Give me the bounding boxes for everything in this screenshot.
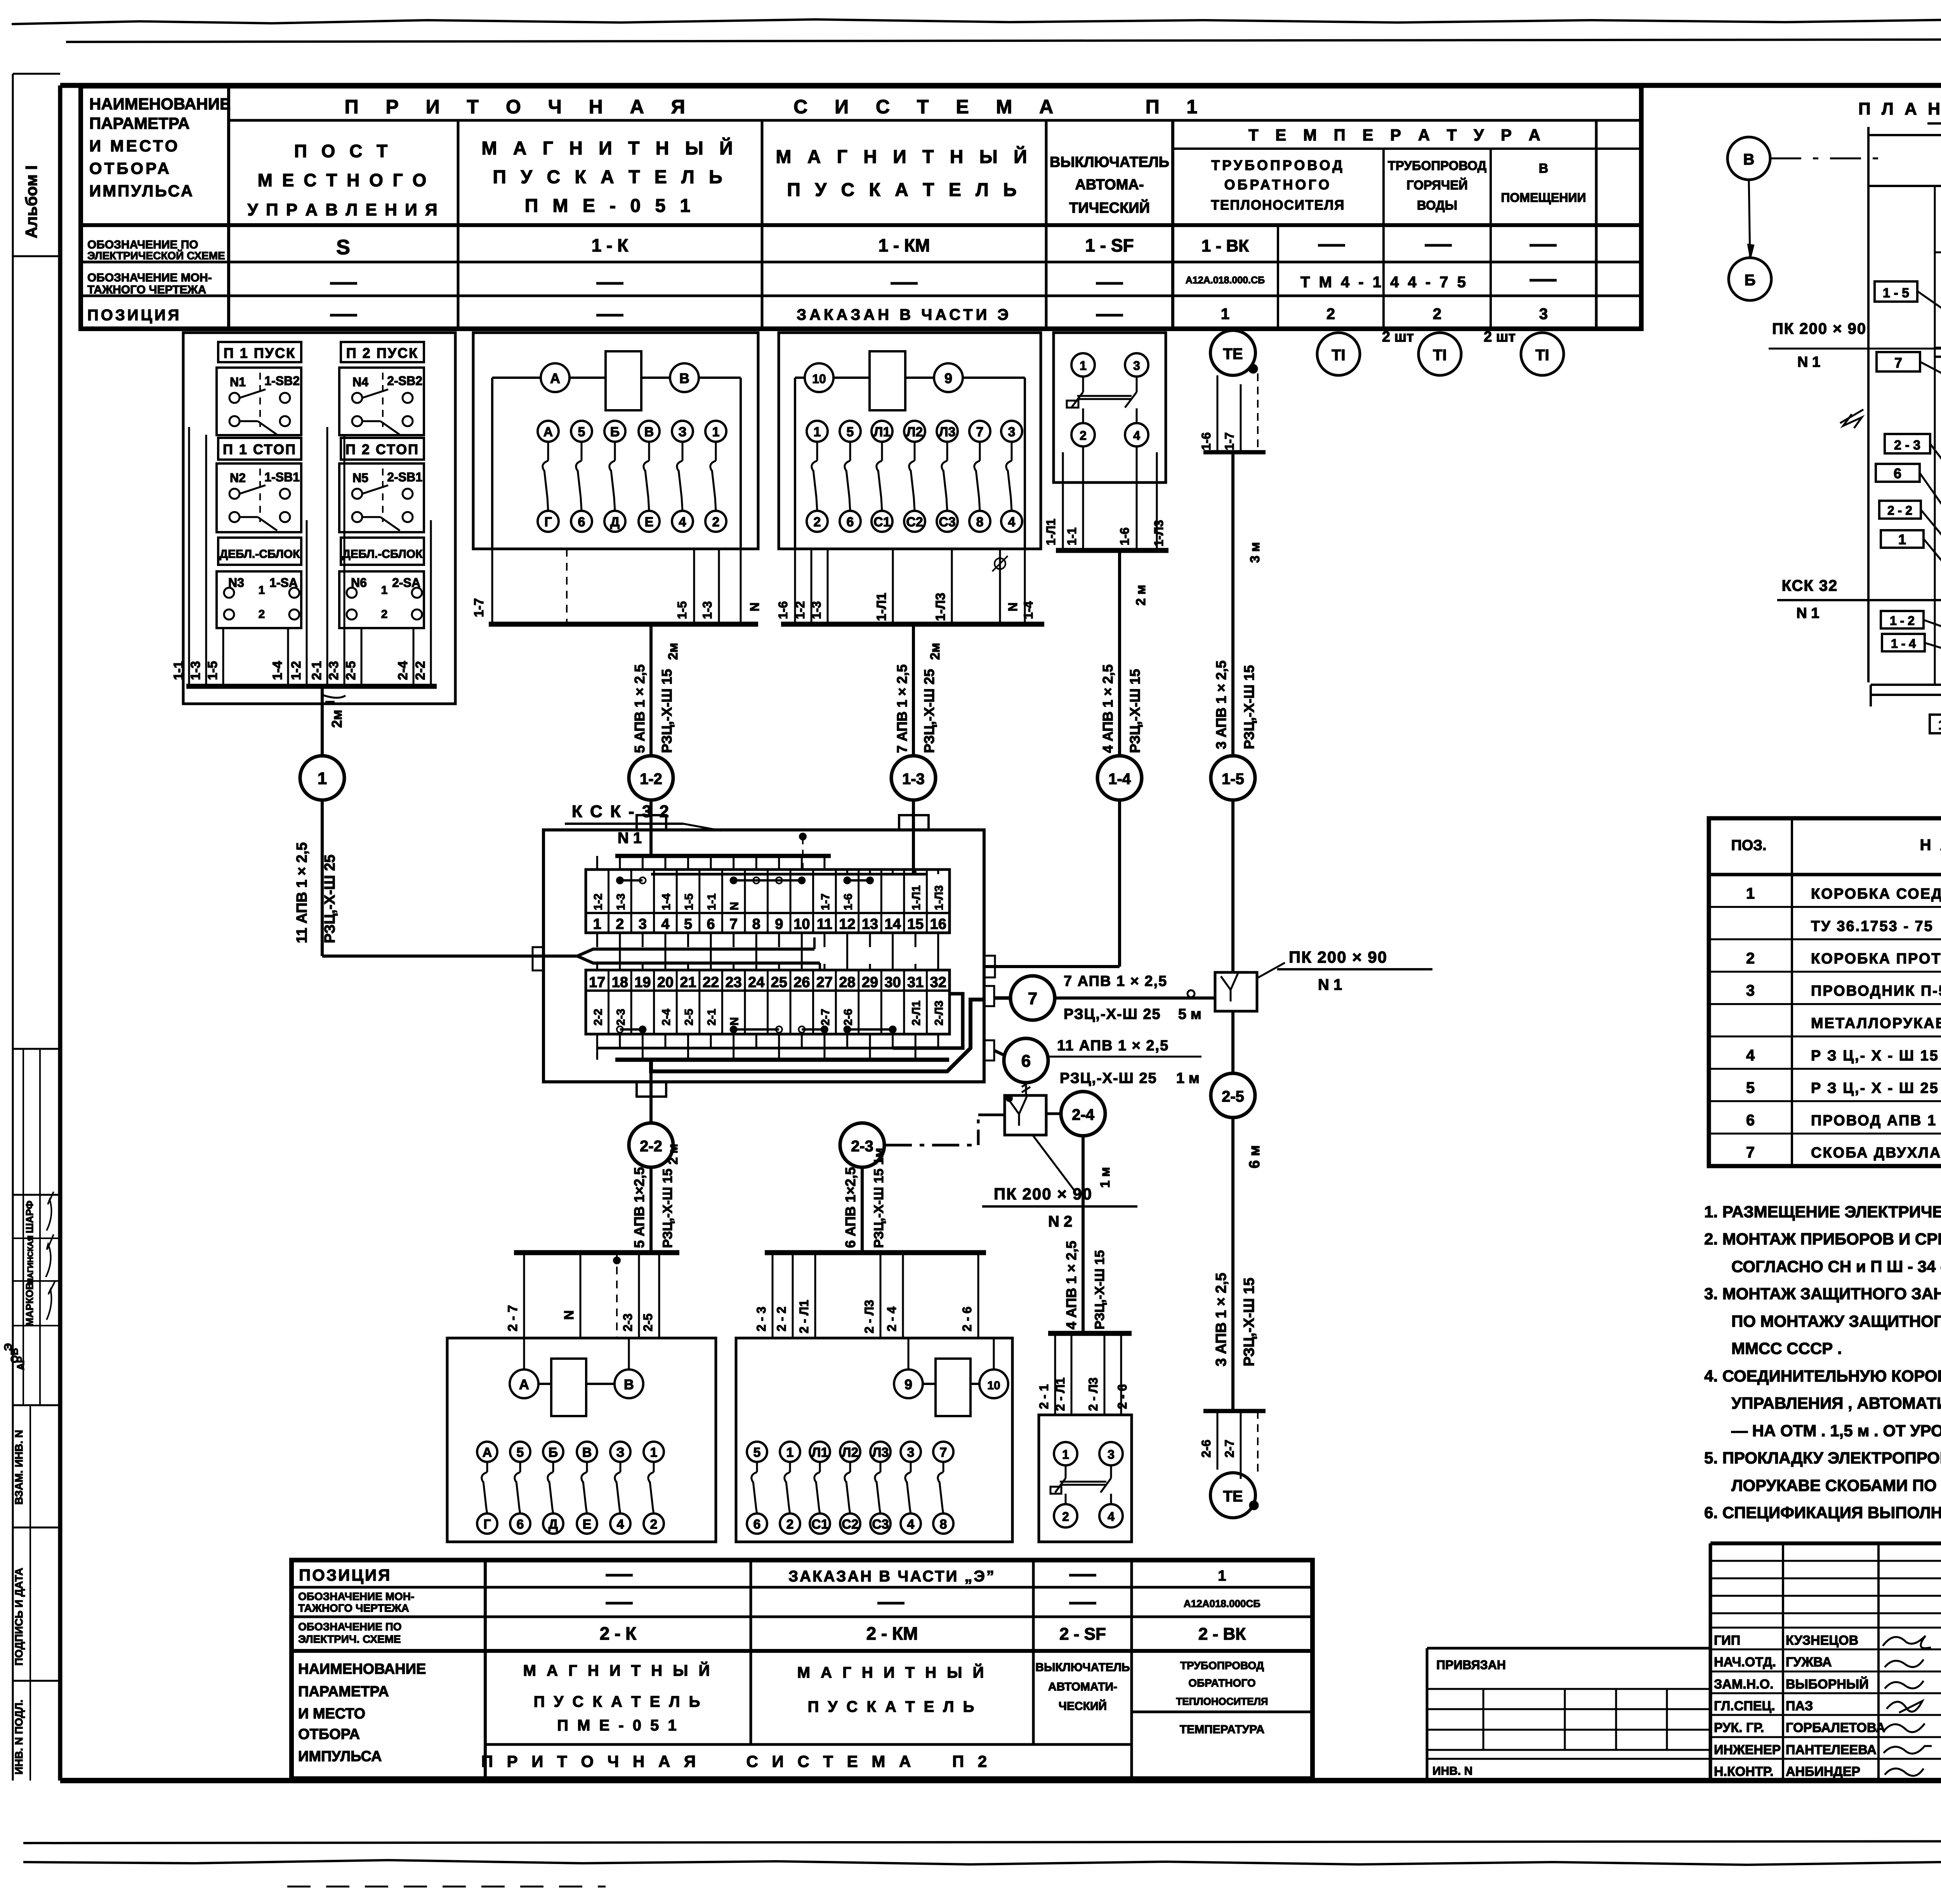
wire 1-L1 [892,549,894,624]
svg-text:6 АПВ 1×2,5: 6 АПВ 1×2,5 [842,1167,858,1248]
wire 2-5 in control post [361,628,363,686]
svg-text:А: А [543,425,553,439]
svg-text:РЗЦ,-Х-Ш 15: РЗЦ,-Х-Ш 15 [1092,1250,1107,1330]
svg-text:2м: 2м [928,643,943,660]
svg-text:П 1 СТОП: П 1 СТОП [223,441,297,457]
svg-text:1: 1 [381,584,388,597]
building top wall band [1868,134,1941,136]
thick loop to circle 7 [893,994,963,1048]
svg-text:2 - Л1: 2 - Л1 [1053,1378,1067,1411]
outer border left [12,74,14,1781]
svg-text:32: 32 [930,974,946,991]
svg-text:2-Л3: 2-Л3 [933,1001,946,1026]
svg-text:1: 1 [786,1445,794,1460]
svg-text:ТРУБОПРОВОД: ТРУБОПРОВОД [1388,158,1486,173]
svg-text:ПРИВЯЗАН: ПРИВЯЗАН [1436,1658,1506,1672]
wire node 1-5 to PK N1 [1231,800,1234,972]
wire 2-7 [523,1253,525,1338]
svg-text:Г: Г [483,1517,491,1532]
svg-text:Б: Б [610,425,620,439]
table P1: poziciya values [330,314,357,317]
wire 1-7 [491,549,493,624]
svg-text:1 м: 1 м [1098,1167,1113,1188]
svg-text:2-3: 2-3 [326,661,341,680]
sidebar signatures squiggles [47,1192,54,1231]
svg-text:2: 2 [1433,305,1441,323]
svg-text:НАИМЕНОВАНИЕ: НАИМЕНОВАНИЕ [298,1661,426,1677]
KCK left notch [533,947,543,970]
KCK collector lines bottom [598,1047,893,1050]
svg-text:23: 23 [726,974,742,991]
svg-text:2-3: 2-3 [621,1314,635,1331]
svg-text:5. ПРОКЛАДКУ ЭЛЕКТРОПРОВОД: 5. ПРОКЛАДКУ ЭЛЕКТРОПРОВОДОК ОСУЩЕСТВИТЬ… [1704,1449,1941,1467]
wire PK N2 to node 2-4 [1046,1113,1061,1115]
svg-text:П У С К А Т Е Л Ь: П У С К А Т Е Л Ь [534,1693,703,1710]
svg-text:31: 31 [907,974,924,991]
svg-text:ЧЕСКИЙ: ЧЕСКИЙ [1059,1699,1107,1713]
svg-text:4. СОЕДИНИТЕЛЬНУЮ КОРОБКУ: 4. СОЕДИНИТЕЛЬНУЮ КОРОБКУ УСТАНОВИТЬ НА … [1704,1367,1941,1385]
drawing frame (thick) [60,83,1941,88]
wire N [580,1253,582,1338]
svg-text:ПК 200 × 90: ПК 200 × 90 [1772,320,1866,337]
jumper 12-13 upper [847,879,870,882]
wire node 1-2 to KCK [649,800,653,856]
svg-text:РЗЦ,-Х-Ш 15: РЗЦ,-Х-Ш 15 [1241,1277,1257,1366]
svg-text:ТРУБОПРОВОД: ТРУБОПРОВОД [1211,157,1345,173]
svg-text:2 - 7: 2 - 7 [505,1305,520,1331]
svg-text:ПК 200 × 90: ПК 200 × 90 [1289,948,1387,966]
svg-text:10: 10 [793,916,810,932]
svg-text:1-7: 1-7 [819,894,832,910]
svg-text:28: 28 [839,974,855,991]
svg-text:СКОБА ДВУХЛАПКОВАЯ СД-22 ТУ: СКОБА ДВУХЛАПКОВАЯ СД-22 ТУ 36. 1086-76 [1811,1145,1941,1161]
svg-text:2 - 3: 2 - 3 [754,1307,768,1331]
svg-text:1-3: 1-3 [188,661,203,680]
svg-text:М А Г Н И Т Н Ы Й: М А Г Н И Т Н Ы Й [481,137,738,159]
svg-text:18: 18 [612,974,628,991]
callout 7 [1877,352,1920,371]
svg-text:14: 14 [884,916,901,932]
svg-text:2 - 2: 2 - 2 [1887,503,1912,517]
svg-text:П 2 ПУСК: П 2 ПУСК [346,345,418,361]
svg-text:Р З Ц,- Х - Ш 15: Р З Ц,- Х - Ш 15 [1811,1048,1939,1064]
svg-text:ПОДПИСЬ И ДАТА: ПОДПИСЬ И ДАТА [13,1568,25,1666]
svg-text:1-4: 1-4 [660,893,673,910]
svg-text:Г: Г [544,515,552,529]
svg-text:4: 4 [679,515,686,529]
svg-text:1: 1 [1062,1448,1069,1461]
svg-text:МАРКОВ: МАРКОВ [24,1283,35,1326]
svg-text:ВЫКЛЮЧАТЕЛЬ: ВЫКЛЮЧАТЕЛЬ [1035,1661,1130,1674]
svg-text:УПРАВЛЕНИЯ , АВТОМАТИЧЕСКИЕ: УПРАВЛЕНИЯ , АВТОМАТИЧЕСКИЕ ВЫКЛЮЧАТЕЛИ … [1731,1394,1941,1412]
svg-text:2-3: 2-3 [615,1009,627,1026]
svg-text:1-2: 1-2 [640,771,662,788]
svg-text:4 АПВ 1 × 2,5: 4 АПВ 1 × 2,5 [1063,1241,1079,1330]
svg-text:ТI: ТI [1535,347,1549,364]
svg-text:ПОЗИЦИЯ: ПОЗИЦИЯ [87,307,181,324]
svg-text:2: 2 [1080,429,1087,443]
wire coil B to top [628,1338,630,1369]
svg-text:N 2: N 2 [1048,1213,1072,1230]
cable 6APV node 2-3 down [861,1167,864,1253]
svg-text:П Л А Н Р А С П О Л О Ж Е Н И: П Л А Н Р А С П О Л О Ж Е Н И Я [1858,99,1941,118]
svg-text:2-6: 2-6 [842,1009,854,1026]
svg-text:1-SB1: 1-SB1 [264,470,300,484]
svg-text:М А Г Н И Т Н Ы Й: М А Г Н И Т Н Ы Й [776,146,1032,167]
svg-text:8: 8 [940,1517,947,1532]
axis V dash line [1770,158,1885,160]
svg-text:В: В [679,370,689,386]
node 1-3 [891,756,936,800]
svg-text:ЭЛЕКТРИЧ. СХЕМЕ: ЭЛЕКТРИЧ. СХЕМЕ [298,1633,401,1645]
torn paper edge top [12,16,1941,116]
svg-text:НАЧ.ОТД.: НАЧ.ОТД. [1714,1655,1776,1670]
svg-text:17: 17 [589,974,605,991]
starter 1-KM bus [781,622,1044,627]
svg-text:2: 2 [786,1517,794,1532]
interior wall horizontal [1935,252,1941,253]
svg-text:И МЕСТО: И МЕСТО [298,1706,365,1722]
svg-text:10: 10 [812,372,826,386]
svg-text:5: 5 [1746,1079,1755,1096]
svg-text:1-2: 1-2 [793,601,807,619]
svg-text:Альбом I: Альбом I [22,165,40,238]
svg-text:4: 4 [617,1517,624,1532]
svg-text:3: 3 [1746,982,1755,999]
local control post box (Пост местного управления) [183,333,455,704]
node 2-3 [840,1123,884,1167]
KCK top cable tabs [637,815,666,830]
svg-text:12: 12 [839,916,855,932]
svg-text:7: 7 [1028,989,1037,1008]
wires 1-SF to bus [1062,452,1064,550]
svg-text:ИМПУЛЬСА: ИМПУЛЬСА [89,182,194,200]
svg-text:РЗЦ,-Х-Ш 15: РЗЦ,-Х-Ш 15 [1127,669,1143,753]
svg-text:11 АПВ 1 × 2,5: 11 АПВ 1 × 2,5 [1057,1038,1169,1054]
callout 1 [1881,530,1924,548]
svg-text:СОГЛАСНО СН и П Ш - 34 - 74: СОГЛАСНО СН и П Ш - 34 - 74 ГОССТРОЯ ССС… [1731,1257,1941,1276]
wire 1-6 [794,549,796,624]
plan bottom wall [1871,684,1941,686]
node 1-5 [1211,756,1255,800]
svg-text:8: 8 [976,515,984,529]
node 1 [300,756,344,800]
svg-text:2-4: 2-4 [396,661,410,680]
wire node 7 to PK200 N1 [1055,996,1215,1000]
interlock label box Дебл.-Сблок [218,538,301,565]
svg-text:2 - SF: 2 - SF [1059,1625,1106,1644]
breaker 2-SF box [1039,1415,1132,1542]
svg-text:ШАРФ: ШАРФ [24,1201,35,1233]
svg-text:2: 2 [1062,1510,1069,1524]
breaker 2-SF bus [1048,1331,1132,1336]
jumper 23-25 lower [734,1028,779,1031]
svg-text:30: 30 [884,974,901,991]
svg-text:1: 1 [712,425,720,439]
terminal strip lower (17-32) [586,970,950,1034]
starter 1-KM coil circuit [805,363,833,392]
wire 1-2 in control post [306,520,308,686]
svg-text:М А Г Н И Т Н Ы Й: М А Г Н И Т Н Ы Й [523,1661,713,1679]
svg-text:2 - 6: 2 - 6 [960,1307,974,1331]
svg-text:2-2: 2-2 [413,661,428,680]
svg-text:П Р И Т О Ч Н А Я С И С Т: П Р И Т О Ч Н А Я С И С Т Е М А П 1 [345,96,1208,118]
svg-text:ВЫБОРНЫЙ: ВЫБОРНЫЙ [1786,1677,1869,1692]
svg-text:3 АПВ 1 × 2,5: 3 АПВ 1 × 2,5 [1213,1273,1229,1366]
KCK bottom tab [637,1082,666,1097]
wire 1-5 [693,549,695,624]
svg-text:В: В [1539,161,1549,176]
svg-text:3: 3 [1133,359,1140,373]
svg-text:2 - КМ: 2 - КМ [866,1623,918,1644]
svg-text:5 АПВ 1×2,5: 5 АПВ 1×2,5 [631,1167,647,1248]
wire 2-5 [658,1253,660,1338]
svg-text:С1: С1 [873,515,890,529]
svg-text:1-Л1: 1-Л1 [874,593,889,621]
svg-text:2: 2 [381,608,388,621]
svg-text:Т М 4 - 1 4 4 - 7 5: Т М 4 - 1 4 4 - 7 5 [1300,274,1468,291]
svg-text:И МЕСТО: И МЕСТО [89,137,180,155]
svg-text:КСК 32: КСК 32 [1782,577,1838,594]
building interior wall x4990 [1934,186,1936,685]
table P2: column lines [484,1560,487,1779]
wire coil A to top [523,1338,525,1369]
selector switch 1-SA [217,571,301,628]
callout 1-3 [1930,715,1941,733]
wire 2-4 [902,1253,904,1338]
svg-text:2-2: 2-2 [592,1009,604,1026]
TE mini bus [1203,450,1266,455]
svg-text:2-7: 2-7 [819,1009,832,1026]
svg-text:2-5: 2-5 [683,1009,696,1026]
svg-text:ЗАМ.Н.О.: ЗАМ.Н.О. [1714,1677,1774,1692]
svg-text:ТЕМПЕРАТУРА: ТЕМПЕРАТУРА [1180,1723,1264,1736]
svg-text:2-SB2: 2-SB2 [387,374,422,388]
svg-text:РЗЦ,-Х-Ш 15: РЗЦ,-Х-Ш 15 [659,669,675,753]
svg-text:А: А [483,1445,492,1460]
svg-text:Б: Б [1745,272,1756,289]
svg-text:АНБИНДЕР: АНБИНДЕР [1786,1764,1860,1779]
svg-text:А12А018.000СБ: А12А018.000СБ [1184,1598,1260,1609]
svg-text:11: 11 [817,916,832,932]
svg-text:ЗАКАЗАН В ЧАСТИ „Э”: ЗАКАЗАН В ЧАСТИ „Э” [788,1568,996,1585]
svg-text:ИНЖЕНЕР: ИНЖЕНЕР [1714,1743,1781,1757]
node 7 [994,996,1010,1000]
svg-text:Н А И М Е Н О В А Н И Е: Н А И М Е Н О В А Н И Е [1920,837,1941,854]
selector switch 2-SA [339,571,424,628]
vent chamber wall band [1935,347,1941,349]
jumper 28-30 lower [847,1028,892,1031]
node 2-5 [1211,1073,1255,1118]
svg-text:2 - 6: 2 - 6 [1115,1384,1129,1409]
svg-text:МЕТАЛЛОРУКАВ ТУ 22. 3988 -: МЕТАЛЛОРУКАВ ТУ 22. 3988 - 77 [1811,1015,1941,1032]
svg-text:ТАЖНОГО ЧЕРТЕЖА: ТАЖНОГО ЧЕРТЕЖА [87,283,206,296]
svg-text:5: 5 [684,916,692,932]
svg-text:РЗЦ,-Х-Ш 25: РЗЦ,-Х-Ш 25 [322,854,338,943]
svg-text:Л1: Л1 [874,425,891,439]
svg-text:2-5: 2-5 [344,661,358,680]
pull box PK200x90 N1 [1215,972,1257,1011]
svg-text:Е: Е [583,1517,592,1532]
wire 2-L3 [880,1253,882,1338]
starter 1-K bus [489,622,758,627]
svg-text:2-1: 2-1 [309,661,324,680]
cable 3APV node 1-5 [1231,452,1234,756]
svg-text:ОТБОРА: ОТБОРА [298,1726,360,1743]
svg-text:1-5: 1-5 [675,601,689,619]
svg-text:П Р И Т О Ч Н А Я С И С Т: П Р И Т О Ч Н А Я С И С Т Е М А П 2 [481,1752,992,1770]
svg-text:Н.КОНТР.: Н.КОНТР. [1714,1764,1774,1779]
svg-text:С2: С2 [842,1517,858,1532]
svg-text:ЭЛЕКТРИЧЕСКОЙ СХЕМЕ: ЭЛЕКТРИЧЕСКОЙ СХЕМЕ [87,249,225,262]
node 1-2 [629,756,673,800]
interlock label box Дебл.-Сблок [341,538,424,565]
svg-text:1: 1 [1746,885,1755,902]
svg-text:1-3: 1-3 [809,601,823,619]
svg-text:1 - 4: 1 - 4 [1891,637,1916,651]
svg-text:5: 5 [578,425,585,439]
svg-text:3: 3 [1539,305,1548,323]
svg-text:2м: 2м [329,710,345,728]
magnetic starter 2-KM box [736,1338,1012,1542]
svg-text:19: 19 [634,974,651,991]
wire 1-3 [718,549,720,624]
svg-text:У П Р А В Л Е Н И Я: У П Р А В Л Е Н И Я [247,200,439,219]
svg-text:Л3: Л3 [939,425,956,439]
svg-text:7: 7 [1746,1144,1755,1161]
wire 2-3 in control post [344,435,345,686]
svg-text:Б: Б [549,1445,558,1460]
terminal strip lower stubs [596,964,598,970]
svg-text:ВЗАМ. ИНВ. N: ВЗАМ. ИНВ. N [13,1430,25,1505]
svg-text:N: N [748,602,762,611]
svg-text:П У С К А Т Е Л Ь: П У С К А Т Е Л Ь [493,167,727,187]
svg-text:2 - Л3: 2 - Л3 [1086,1378,1100,1411]
temperature sensor TE top [1210,330,1255,375]
wire N2 [999,549,1001,624]
svg-text:2м: 2м [666,643,681,660]
svg-text:КУЗНЕЦОВ: КУЗНЕЦОВ [1786,1633,1858,1648]
svg-text:N 1: N 1 [1318,976,1342,993]
pushbutton label box П 2 СТОП [341,438,424,460]
pushbutton contact 1-SB1 [217,463,301,532]
svg-text:1-2: 1-2 [289,661,304,680]
svg-text:2-5: 2-5 [1222,1088,1244,1105]
svg-text:ТЕ: ТЕ [1223,1488,1243,1505]
starter 2-KM contacts [747,1442,767,1462]
svg-text:РЗЦ,-Х-Ш 25: РЗЦ,-Х-Ш 25 [921,669,937,753]
svg-text:1 м: 1 м [1176,1070,1200,1087]
svg-text:N: N [562,1310,576,1320]
svg-text:ТЕПЛОНОСИТЕЛЯ: ТЕПЛОНОСИТЕЛЯ [1211,198,1345,213]
breaker 1-SF box [1054,333,1166,483]
svg-text:6: 6 [1894,465,1901,481]
control post bus [186,684,437,689]
svg-text:П У С К А Т Е Л Ь: П У С К А Т Е Л Ь [808,1698,977,1715]
torn paper edge bottom [23,1841,1941,1843]
signatures squiggles in title block [1883,1636,1931,1648]
svg-text:В: В [644,425,654,439]
svg-text:В: В [624,1376,634,1392]
svg-text:2 - 4: 2 - 4 [885,1307,899,1331]
svg-text:7: 7 [976,425,984,439]
svg-text:1-6: 1-6 [1199,432,1213,450]
svg-text:1-Л3: 1-Л3 [933,885,946,910]
outer border line top [66,39,1941,42]
svg-text:3 АПВ 1 × 2,5: 3 АПВ 1 × 2,5 [1213,660,1229,749]
wire PK N1 to node 2-5 [1231,1011,1234,1073]
svg-text:1-Л3: 1-Л3 [1152,520,1166,547]
svg-text:2-2: 2-2 [640,1138,662,1155]
svg-text:3. МОНТАЖ ЗАЩИТНОГО ЗАНУЛ: 3. МОНТАЖ ЗАЩИТНОГО ЗАНУЛЕНИЯ ВЫПОЛНИТЬ … [1704,1284,1941,1303]
svg-text:ТРУБОПРОВОД: ТРУБОПРОВОД [1180,1659,1264,1671]
svg-text:3 м: 3 м [1248,542,1262,563]
svg-text:4: 4 [1008,515,1016,529]
long wire from node 1 through KCK [321,800,324,956]
svg-text:3: 3 [1108,1448,1115,1461]
svg-text:5: 5 [517,1445,524,1460]
pushbutton contact 2-SB2 [339,368,424,435]
svg-text:ОТБОРА: ОТБОРА [89,159,172,177]
svg-text:1-5: 1-5 [683,894,696,910]
jumper 2-3 upper [620,879,643,882]
svg-text:ТЕ: ТЕ [1223,345,1243,363]
title block: sig table upper rows [1710,1560,1941,1562]
svg-text:1-7: 1-7 [472,598,486,617]
svg-text:3: 3 [1008,425,1016,439]
svg-text:1: 1 [593,916,601,932]
svg-text:КОРОБКА ПРОТЯЖНАЯ ПК 200×90: КОРОБКА ПРОТЯЖНАЯ ПК 200×90 ТУ36. 1070-7… [1811,951,1941,967]
svg-text:1-7: 1-7 [1222,432,1236,450]
svg-text:7: 7 [1894,355,1902,371]
wire 2-3 [638,1253,640,1338]
svg-text:ИНВ. N: ИНВ. N [1432,1765,1472,1777]
svg-text:3: 3 [907,1445,915,1460]
svg-text:4 АПВ 1 × 2,5: 4 АПВ 1 × 2,5 [1100,664,1116,753]
svg-text:21: 21 [680,974,696,991]
svg-text:22: 22 [703,974,719,991]
starter 2-K bus [514,1250,679,1255]
svg-text:N: N [1006,602,1020,611]
svg-text:2 - Л3: 2 - Л3 [862,1300,876,1333]
svg-text:2 шт: 2 шт [1484,329,1516,345]
svg-text:1-5: 1-5 [1222,771,1244,788]
svg-text:ОБОЗНАЧЕНИЕ МОН-: ОБОЗНАЧЕНИЕ МОН- [298,1590,414,1602]
magnetic starter 2-K box [447,1338,716,1542]
svg-text:С3: С3 [939,515,955,529]
KCK right tabs [984,986,994,1006]
svg-text:Д: Д [549,1517,558,1532]
wire 2-6 [1120,1333,1122,1415]
wire node 1-4 into KCK right [1118,800,1121,967]
starter 1-K contacts [538,421,559,442]
svg-text:1: 1 [1898,531,1906,547]
svg-text:1-1: 1-1 [705,894,718,910]
svg-text:13: 13 [862,916,878,932]
svg-text:З: З [678,425,686,439]
svg-text:ГУЖВА: ГУЖВА [1786,1655,1832,1670]
svg-text:ОБОЗНАЧЕНИЕ МОН-: ОБОЗНАЧЕНИЕ МОН- [87,271,212,284]
svg-text:Т Е М П Е Р А Т У Р А: Т Е М П Е Р А Т У Р А [1248,126,1547,144]
svg-text:ММСС СССР .: ММСС СССР . [1731,1339,1842,1357]
svg-text:4: 4 [661,916,669,932]
wire 2-L1 [1071,1333,1073,1415]
starter 2-K contacts [477,1442,497,1462]
jumper 18-19 lower [620,1028,643,1031]
wire 1-2 [811,549,813,624]
svg-text:2: 2 [712,515,720,529]
svg-text:1 - SF: 1 - SF [1085,235,1134,255]
